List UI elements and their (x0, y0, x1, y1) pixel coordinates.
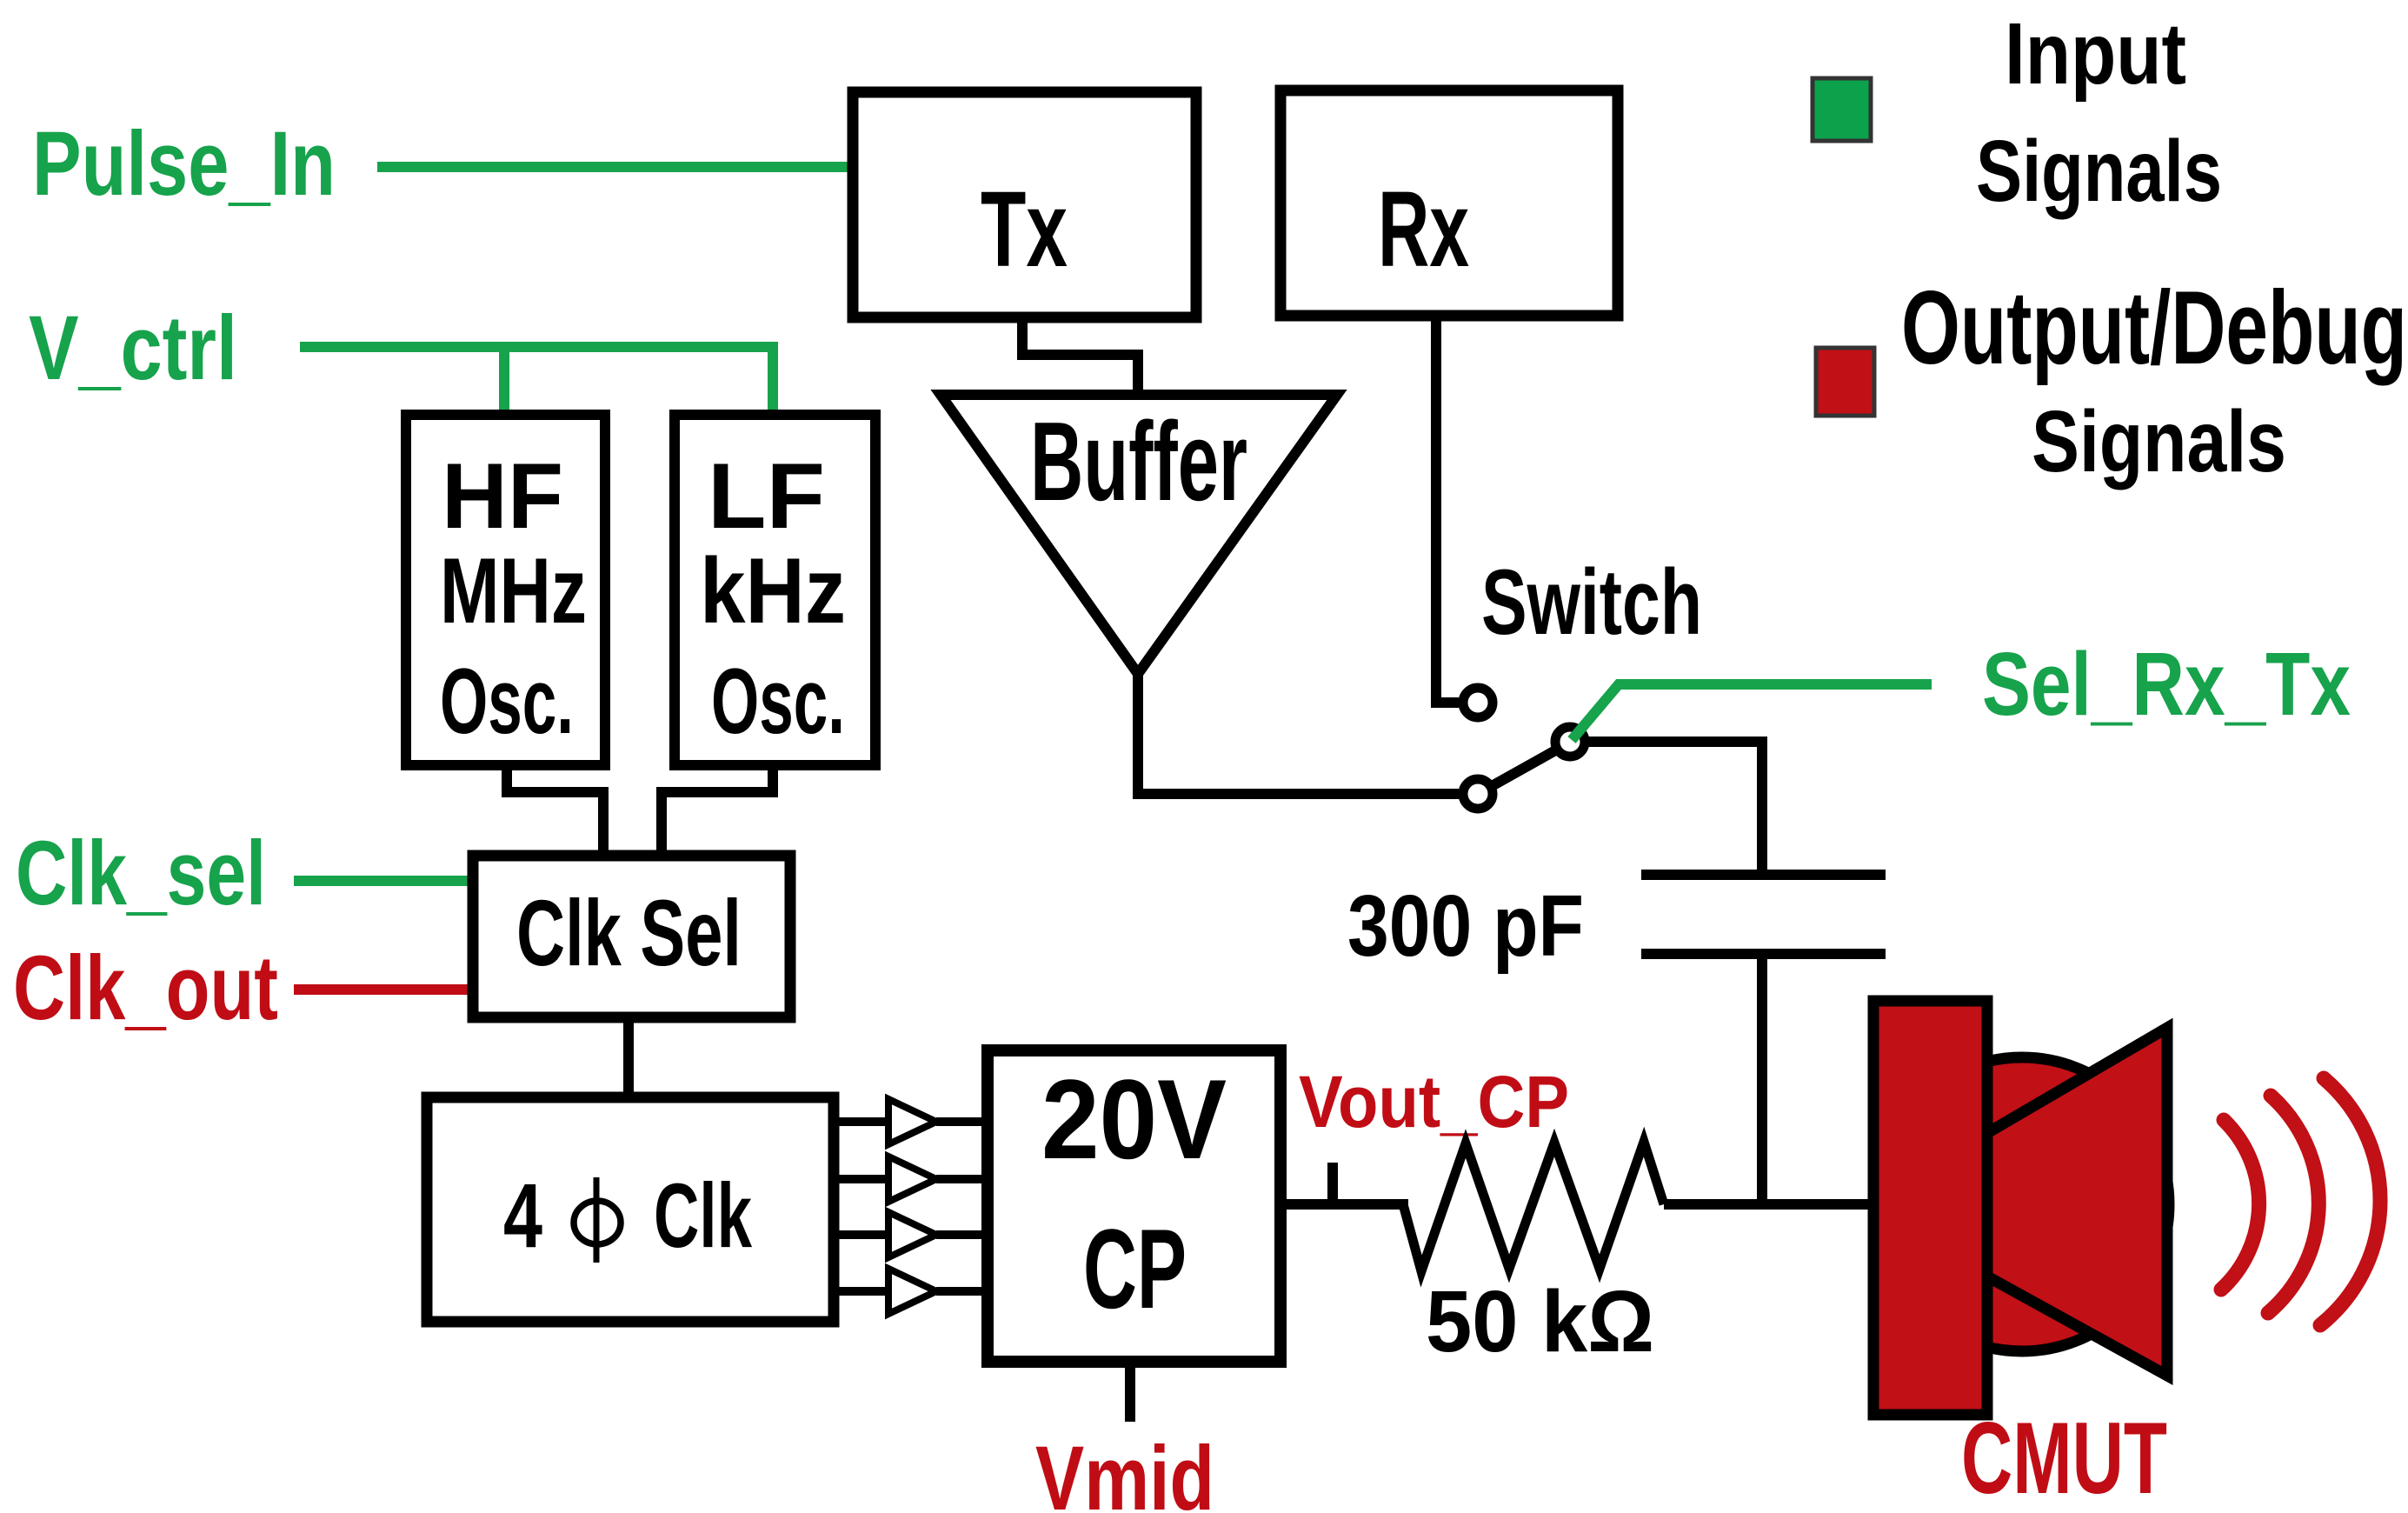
svg-text:Clk: Clk (654, 1165, 752, 1267)
svg-text:Clk Sel: Clk Sel (516, 880, 742, 985)
svg-text:CMUT: CMUT (1961, 1401, 2167, 1513)
svg-text:Vmid: Vmid (1035, 1428, 1214, 1513)
svg-text:Osc.: Osc. (440, 649, 574, 753)
svg-text:Pulse_In: Pulse_In (32, 113, 336, 215)
wire Clk_sel input (294, 876, 476, 886)
wire switch pole to capacitor (1587, 742, 1762, 875)
wire Tx to Buffer (1022, 317, 1138, 400)
svg-text:Output/Debug: Output/Debug (1901, 270, 2407, 386)
legend input signals swatch (1813, 78, 1871, 141)
wire capacitor to output node (1757, 954, 1767, 1210)
svg-text:V_ctrl: V_ctrl (29, 297, 237, 399)
svg-text:Signals: Signals (2032, 393, 2286, 490)
wire LF osc to Clk Sel (662, 765, 773, 856)
clock phase buffer 2 (834, 1175, 888, 1183)
wire Rx to switch throw (1436, 316, 1459, 703)
svg-text:Clk_sel: Clk_sel (16, 823, 266, 924)
svg-text:Rx: Rx (1378, 170, 1469, 290)
svg-text:Vout_CP: Vout_CP (1299, 1061, 1569, 1143)
transducer CMUT horn (1987, 1028, 2167, 1376)
wire Clk Sel to 4-phase clock (623, 1017, 634, 1097)
svg-text:4: 4 (503, 1165, 542, 1267)
svg-text:MHz: MHz (440, 538, 587, 643)
wire Buffer output to switch throw (1138, 670, 1459, 794)
svg-text:kHz: kHz (700, 538, 846, 643)
svg-text:300 pF: 300 pF (1347, 877, 1584, 975)
capacitor 300 pF bottom plate (1641, 949, 1886, 959)
svg-text:CP: CP (1083, 1205, 1187, 1332)
node Vout_CP probe tick (1327, 1163, 1338, 1204)
svg-text:50 kΩ: 50 kΩ (1426, 1273, 1654, 1370)
wire V_ctrl drop to HF osc (499, 347, 509, 415)
wire Clk_out output (294, 984, 476, 995)
resistor 50 kOhm (1403, 1142, 1664, 1271)
svg-text:Input: Input (2005, 5, 2186, 103)
pin Vmid (1125, 1362, 1135, 1422)
svg-text:20V: 20V (1041, 1056, 1227, 1183)
svg-text:LF: LF (708, 443, 825, 548)
wire Sel_Rx_Tx control (1572, 684, 1932, 740)
block HF MHz Osc (406, 415, 605, 765)
sound wave arc 1 (2221, 1120, 2259, 1290)
block Tx (853, 92, 1196, 317)
wire V_ctrl distribution (300, 347, 773, 415)
block 4-phase Clk (427, 1097, 834, 1322)
sound wave arc 2 (2268, 1096, 2318, 1313)
svg-text:Tx: Tx (981, 170, 1068, 290)
svg-text:Osc.: Osc. (711, 649, 845, 753)
transducer CMUT body plate (1873, 1001, 1987, 1415)
block 20V CP charge pump (988, 1050, 1280, 1362)
block LF kHz Osc (675, 415, 875, 765)
svg-text:Switch: Switch (1481, 550, 1702, 654)
block Rx (1280, 90, 1618, 316)
wire HF osc to Clk Sel (507, 765, 603, 856)
clock phase buffer 4 (834, 1287, 888, 1296)
wire CP output (1280, 1199, 1408, 1210)
switch lever (1492, 750, 1557, 786)
legend output/debug swatch (1816, 348, 1874, 416)
switch pole contact (1555, 727, 1585, 756)
svg-text:HF: HF (442, 443, 563, 548)
block Clk Sel (473, 856, 790, 1017)
svg-text:Buffer: Buffer (1030, 399, 1247, 524)
capacitor 300 pF top plate (1641, 870, 1886, 880)
wire Pulse_In to Tx (377, 162, 856, 172)
switch throw contact Tx (1463, 779, 1493, 809)
sound wave arc 3 (2320, 1078, 2380, 1325)
op-amp Buffer (941, 395, 1337, 674)
switch throw contact Rx (1463, 688, 1493, 717)
wire resistor to CMUT (1664, 1199, 1878, 1210)
clock phase buffer 1 (834, 1117, 888, 1126)
svg-text:Sel_Rx_Tx: Sel_Rx_Tx (1982, 634, 2351, 734)
transducer CMUT membrane circle (1875, 1057, 2169, 1351)
svg-text:Signals: Signals (1976, 123, 2222, 220)
clock phase buffer 3 (834, 1230, 888, 1239)
phi symbol (574, 1201, 621, 1244)
svg-text:Clk_out: Clk_out (13, 937, 278, 1039)
